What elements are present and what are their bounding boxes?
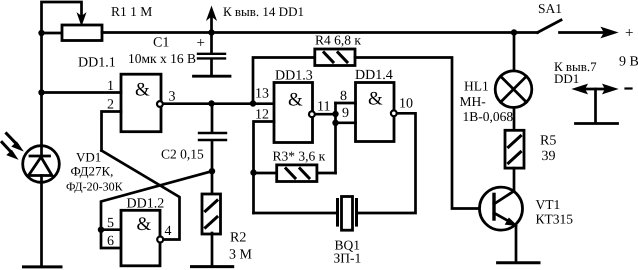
svg-text:R3* 3,6 к: R3* 3,6 к [273,149,326,164]
gate DD1.3 [274,83,315,143]
svg-text:C2 0,15: C2 0,15 [161,147,204,162]
ground (bottom left) [24,265,62,268]
svg-text:R4 6,8 к: R4 6,8 к [315,33,361,48]
svg-text:2: 2 [107,98,114,113]
svg-text:5: 5 [107,216,114,231]
svg-text:VD1: VD1 [76,150,101,165]
svg-text:1В-0,068: 1В-0,068 [463,109,514,124]
svg-text:13: 13 [255,87,269,102]
battery / power connector К выв.7 DD1, 9 В [573,85,618,124]
node junction pin9 [332,120,338,126]
wire main top rail [102,31,538,34]
capacitor C2 (0,15) [199,104,226,194]
svg-text:&: & [135,80,150,101]
svg-text:КТ315: КТ315 [536,212,574,227]
svg-text:4: 4 [165,224,172,239]
svg-text:ЗП-1: ЗП-1 [334,251,362,266]
wire cross-coupling A (pin2 DD1.1 to out4 DD1.2) [102,151,180,240]
svg-text:R2: R2 [230,230,246,245]
svg-text:VT1: VT1 [536,197,561,212]
switch SA1 [538,20,618,38]
photodiode VD1 [2,93,59,267]
pin 1 [42,79,122,94]
pin 3 output wire [164,90,274,105]
svg-text:6: 6 [107,234,114,249]
node junction output3/R4 [250,100,256,106]
svg-text:&: & [368,89,383,110]
svg-text:R1 1 М: R1 1 М [111,4,152,19]
node junction R1 left [38,30,44,36]
svg-text:DD1.4: DD1.4 [355,68,393,83]
svg-text:12: 12 [255,108,269,123]
svg-text:+: + [197,36,205,52]
ground (below C1) [194,75,231,78]
svg-text:3 М: 3 М [229,248,253,263]
svg-text:1: 1 [107,79,114,94]
svg-text:&: & [137,214,152,235]
svg-text:ФД27К,: ФД27К, [71,164,114,179]
pin 9 [336,106,356,123]
svg-text:10мк х 16 В: 10мк х 16 В [128,51,196,66]
pin 11 output wire [316,100,336,115]
lamp HL1 [495,33,532,131]
svg-text:ФД-20-30К: ФД-20-30К [66,180,124,194]
ground (below VT1) [498,261,539,264]
wire pins 8-9 vertical to R3 [334,103,337,173]
svg-text:3: 3 [169,90,176,105]
node junction R3 left [250,169,256,175]
pin 2 [102,98,122,151]
resistor R2 (3 М) [202,194,221,266]
pin 10 output wire [358,97,416,214]
svg-text:&: & [288,90,303,111]
svg-text:9 В: 9 В [619,55,638,70]
resistor R5 (39) [505,130,524,191]
node junction pin1/left rail [38,89,44,95]
svg-text:C1: C1 [153,36,169,51]
svg-text:+: + [625,26,633,42]
svg-text:HL1: HL1 [464,79,489,94]
pin 5 stub [101,228,121,231]
node junction out11 [332,111,338,117]
svg-text:39: 39 [542,149,556,164]
node junction output3/C2 [208,100,214,106]
wire left rail [40,33,43,93]
svg-text:SA1: SA1 [538,1,562,16]
gate DD1.2 [121,210,163,265]
pin 12 [254,108,275,214]
power terminal К выв. 14 DD1 (arrow up) [207,7,216,33]
svg-text:DD1.3: DD1.3 [275,69,313,84]
capacitor C1 (10мк x 16 В, polarized) [197,33,226,76]
gate DD1.1 [121,74,163,132]
svg-text:11: 11 [317,100,330,115]
svg-text:DD1: DD1 [554,71,579,86]
pin 8 [336,89,356,104]
resistor R1 (potentiometer, 1 М) [42,25,103,41]
transistor VT1 (КТ315) [480,187,523,262]
svg-text:DD1.2: DD1.2 [127,197,165,212]
resistor R4 (6,8 к) [253,49,494,209]
wire top-left bend (R1 wiper return) [42,2,86,33]
gate DD1.4 [356,83,397,142]
svg-text:R5: R5 [540,134,556,149]
node junction C1/top [208,29,214,35]
wire bottom rail (pin12 vertical to BQ1) [254,212,337,215]
wire cross-coupling B (C2 node to pins 5,6 DD1.2) [101,171,212,248]
ground (below R2) [192,265,233,268]
svg-text:9: 9 [342,106,349,121]
resistor R3 (3,6 к) [254,165,336,182]
svg-text:8: 8 [340,89,347,104]
node junction lamp/top [511,29,517,35]
node junction C2/diagonal [209,168,215,174]
node junction pin5 [98,227,104,233]
svg-text:10: 10 [399,97,413,112]
buzzer BQ1 (ЗП-1) [338,197,357,231]
svg-text:К выв. 14 DD1: К выв. 14 DD1 [223,4,304,19]
svg-text:DD1.1: DD1.1 [78,56,116,71]
label - (minus) [626,87,632,89]
svg-text:МН-: МН- [460,94,487,109]
